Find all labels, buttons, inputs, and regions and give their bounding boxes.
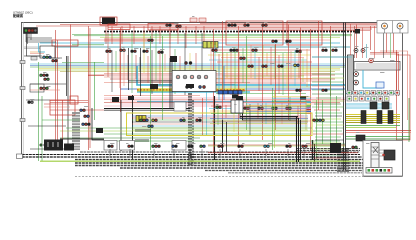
junction blob A xyxy=(128,96,134,100)
wire cyan vertical right xyxy=(363,70,382,88)
red outline small A xyxy=(108,24,130,30)
red box outline top-left xyxy=(52,40,78,46)
junction blob B xyxy=(186,84,194,88)
bottom row glyph I xyxy=(127,145,130,148)
meter box top glyph xyxy=(232,95,238,99)
sensor glyph A xyxy=(295,89,298,92)
fuse box blob xyxy=(96,128,103,133)
wire mid multicolor bundle xyxy=(30,64,345,72)
wire red short horizontals upper xyxy=(104,39,148,41)
starter motor xyxy=(44,140,63,151)
bottom row glyph C xyxy=(171,145,174,148)
white box clutch switch xyxy=(174,102,186,111)
glyph circle mid xyxy=(369,58,373,62)
frame bottom right segment xyxy=(363,176,403,178)
striped box below bundle xyxy=(203,42,218,49)
wire cyan vertical 206 xyxy=(206,92,208,136)
frame top edge xyxy=(21,22,403,24)
wire cyan bundle right xyxy=(346,104,392,108)
wire dark pair above bus xyxy=(128,81,208,83)
harness end blob xyxy=(355,29,360,34)
frame tick connectors xyxy=(20,61,25,122)
ignition switch blob xyxy=(330,143,341,153)
bottom faint harness line xyxy=(75,176,365,178)
wire red top bundle xyxy=(36,23,398,30)
wire black verticals xyxy=(67,48,315,162)
wire cyan upper run xyxy=(40,42,340,44)
wire red vertical 202 xyxy=(202,98,204,136)
bottom row glyph L xyxy=(301,145,304,148)
wire teal mid right xyxy=(312,56,352,58)
wire red verticals xyxy=(56,21,397,152)
switch cluster glyph A xyxy=(139,119,142,122)
battery box outline xyxy=(363,141,403,177)
wire salmon run xyxy=(90,39,330,41)
wire green pair right xyxy=(346,126,400,128)
wire teal across xyxy=(346,93,400,95)
harness vertical bundle center xyxy=(189,93,193,166)
red box outline left mid xyxy=(50,100,75,115)
bottom left connector stub xyxy=(17,154,23,159)
connector lower mid F xyxy=(271,107,274,110)
wire cyan lower run xyxy=(137,91,250,93)
switch-cluster inner wires xyxy=(132,116,308,130)
ignition coil cylinder B xyxy=(377,111,382,124)
wire mesh lower center xyxy=(209,96,310,135)
wire red vertical 90 xyxy=(89,28,91,148)
starter relay blob xyxy=(64,144,74,151)
rainbow bundle center xyxy=(246,103,310,112)
wire left column drops xyxy=(24,38,104,149)
connector center mid D xyxy=(293,64,296,67)
frame right edge xyxy=(402,22,404,176)
wire greens 312-344 xyxy=(312,74,344,94)
wire green short right of cluster xyxy=(72,44,104,46)
wire pink bundle xyxy=(104,96,345,107)
bottom row glyph H xyxy=(351,146,354,149)
wire red bottom run xyxy=(208,152,358,154)
ignition coil cylinder C xyxy=(388,111,393,124)
connector top center E xyxy=(271,40,274,43)
connector top center D xyxy=(285,40,288,43)
wire cyan vertical 219 xyxy=(218,64,220,100)
svg-text:配線図: 配線図 xyxy=(13,13,24,18)
yellow bus bar with ticks xyxy=(137,88,245,91)
black harness L center xyxy=(240,117,298,121)
bottom row glyph E xyxy=(217,145,220,148)
connector right strip xyxy=(312,119,315,122)
red harness inner line xyxy=(226,22,322,24)
wire main harness dashed xyxy=(104,31,360,33)
connector strip bottom of ECU xyxy=(347,91,400,96)
wire red horizontals left mid xyxy=(50,100,88,140)
battery terminal strip xyxy=(366,168,392,174)
starter coil component xyxy=(384,150,395,160)
wire cyan drop left xyxy=(39,43,46,52)
wire green verticals xyxy=(39,36,337,161)
red box small left xyxy=(70,96,78,104)
spark cross symbol xyxy=(373,147,378,153)
flasher lamp left xyxy=(382,23,388,29)
junction blob A2 xyxy=(112,97,119,102)
glyph pair above relay box xyxy=(184,61,187,64)
glyph circle top B xyxy=(361,49,365,53)
connector center mid A xyxy=(247,65,250,68)
wire dark run left lower xyxy=(60,138,104,140)
ECU narrow box xyxy=(348,55,354,92)
black vertical bundle center-right xyxy=(297,116,301,162)
rainbow bundle upper xyxy=(272,97,311,104)
connector mid C xyxy=(175,25,178,28)
switch cluster glyph B xyxy=(151,119,154,122)
connector mid B xyxy=(165,24,168,27)
switch-cluster yellow box xyxy=(127,113,313,136)
wire black path left column xyxy=(27,34,41,57)
sensor glyph B xyxy=(321,89,324,92)
connector cluster C xyxy=(39,74,42,77)
wire cyan thick feed xyxy=(137,66,345,85)
wire blue lower run xyxy=(120,88,345,90)
connector mid right B xyxy=(331,49,334,52)
connector top center C xyxy=(261,24,264,27)
wire red bottom run2 xyxy=(208,144,345,146)
junction blob C xyxy=(236,96,243,100)
cdi blob top xyxy=(102,18,115,25)
dash ticks in switch box xyxy=(136,129,150,142)
connector center mid C xyxy=(277,65,280,68)
connector top row A xyxy=(105,50,108,53)
dark vertical pair left of relay box xyxy=(170,58,172,108)
wire red pair top right xyxy=(370,52,399,96)
connector row2 A xyxy=(211,49,214,52)
connector top center A xyxy=(227,24,230,27)
relay box center xyxy=(172,71,216,92)
glyph small left xyxy=(31,57,37,61)
green box edge verticals xyxy=(273,88,275,150)
frame left edge xyxy=(21,22,23,157)
red outline small B xyxy=(148,24,178,31)
wire green far right vertical xyxy=(408,98,410,142)
lamp box stems xyxy=(385,29,401,33)
connector lower mid A xyxy=(215,106,218,109)
wire teal upper run xyxy=(56,46,350,48)
bottom row glyph B xyxy=(151,145,154,148)
flasher lamp right xyxy=(397,23,403,29)
connector cluster H xyxy=(83,115,86,118)
flasher lamp box xyxy=(377,21,408,34)
sensor block right A xyxy=(370,102,377,109)
black box outline left xyxy=(40,46,55,58)
wire green top pair xyxy=(72,34,352,37)
starter motor white ticks xyxy=(48,142,58,147)
bottom harness bundle xyxy=(22,149,370,173)
connector lower mid D xyxy=(285,107,288,110)
tiny label smudges xyxy=(30,16,395,144)
frame divider verticals right xyxy=(344,23,346,171)
bottom row glyph F xyxy=(263,145,266,148)
bottom row glyph D xyxy=(187,145,190,148)
bottom row white box A xyxy=(104,141,117,151)
wire green bottom right xyxy=(346,137,410,140)
rectifier long box xyxy=(354,62,400,71)
connector lower mid B xyxy=(231,106,234,109)
connector lower mid E xyxy=(243,107,246,110)
wire mesh center xyxy=(208,44,312,95)
bottom row white box C xyxy=(172,141,186,151)
black stub wires below headlight connector xyxy=(28,34,32,45)
cdi blob outline xyxy=(100,17,117,25)
switch cluster glyph E xyxy=(147,125,150,128)
bottom row glyph G xyxy=(285,145,288,148)
sensor block right B xyxy=(382,102,389,109)
wire dark bundle mid-left xyxy=(104,108,190,110)
connector top row D xyxy=(142,50,145,53)
ignition coil cylinder A xyxy=(361,111,366,124)
junction blob D xyxy=(300,96,306,100)
connector row2 D xyxy=(239,57,242,60)
connector top row C xyxy=(130,50,133,53)
wire drops left-center xyxy=(108,33,202,95)
switch cluster glyph D xyxy=(195,119,198,122)
connector mid right A xyxy=(321,49,324,52)
connector top center B xyxy=(243,24,246,27)
connector cluster A xyxy=(42,56,45,59)
sensor glyph right lower xyxy=(356,135,365,141)
relay circle B xyxy=(354,80,359,85)
wire green mesh right xyxy=(312,98,344,158)
blue striped bar xyxy=(218,91,242,95)
headlight connector top-left xyxy=(24,28,38,34)
small red glyphs above frame xyxy=(190,18,197,22)
engine block blob xyxy=(150,84,158,89)
bottom row glyph A xyxy=(107,145,110,148)
wire red drops top band xyxy=(106,26,204,48)
connector cluster G xyxy=(79,109,82,112)
connector top row E xyxy=(157,51,160,54)
bottom row glyph J xyxy=(199,145,202,148)
wire red right margin loop xyxy=(396,55,410,140)
connector cluster F xyxy=(27,101,30,104)
harness vertical bundle left xyxy=(73,112,79,150)
wires cylinder to coil xyxy=(379,150,384,156)
connector lower mid C xyxy=(257,107,260,110)
black box outline lower left xyxy=(30,84,44,92)
red harness outline top center B xyxy=(287,21,322,45)
connector cluster E xyxy=(39,87,42,90)
wire cyan thick lower xyxy=(137,101,310,103)
switch cluster glyph C xyxy=(179,119,182,122)
fuse column box xyxy=(231,100,243,113)
ignition coil cylinder main xyxy=(371,143,379,168)
relay box blue conns xyxy=(185,85,188,88)
connector cluster B xyxy=(51,59,54,62)
black drops below switch box xyxy=(223,120,227,152)
connector cluster I xyxy=(81,123,84,126)
colored tick stack xyxy=(307,100,312,114)
connector mid A xyxy=(147,39,150,42)
wire green runs lower center xyxy=(60,128,345,146)
connector strip top right cluster xyxy=(347,97,389,102)
wire black vertical 121 xyxy=(120,100,122,151)
ECU narrow box pins xyxy=(348,57,353,89)
red harness outline top center A xyxy=(226,21,283,45)
wire blue vertical 224 xyxy=(223,66,225,100)
regulator blob xyxy=(170,56,177,62)
wire salmon pair right xyxy=(346,131,411,133)
wire drops into ECU area xyxy=(351,24,391,58)
wire black L lower left xyxy=(92,108,104,140)
connector row2 C xyxy=(251,49,254,52)
harness vertical bundle right xyxy=(338,148,348,172)
bottom glyph stubs xyxy=(110,149,304,156)
wire red bends right xyxy=(380,25,394,53)
conn green dots battery xyxy=(40,144,43,147)
connector row2 B xyxy=(229,49,232,52)
connector cluster D xyxy=(43,78,46,81)
striped connector in switch box xyxy=(136,116,146,122)
glyph circle top A xyxy=(354,49,358,53)
connector center mid B xyxy=(261,65,264,68)
bottom row glyph K xyxy=(237,145,240,148)
connector top row B xyxy=(119,49,122,52)
headlight connector stub lines xyxy=(26,34,29,43)
relay circle A xyxy=(354,72,359,77)
blue box small xyxy=(376,82,384,88)
wire salmon mid runs xyxy=(88,74,335,87)
relay box glyphs xyxy=(176,75,208,79)
bottom row white box B xyxy=(120,141,135,151)
wire yellow bundle right xyxy=(346,115,400,123)
connector row2 E xyxy=(295,50,298,53)
